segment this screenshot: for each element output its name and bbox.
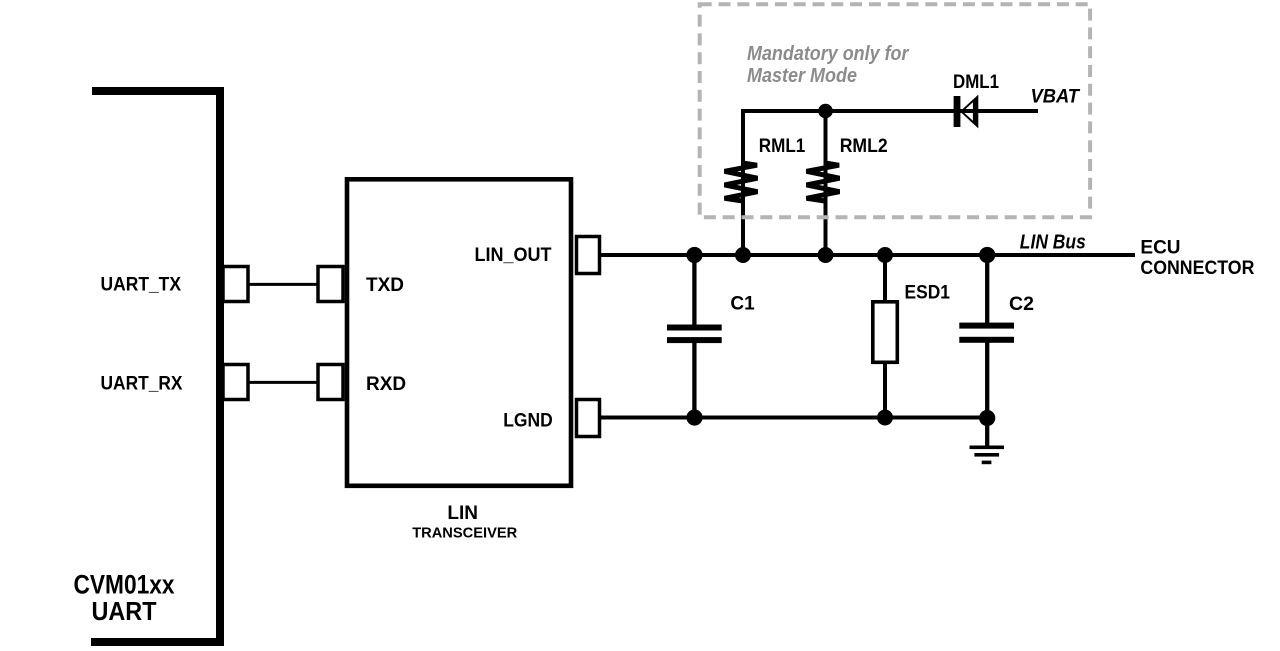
pin box TXD xyxy=(318,267,343,302)
node C1 top xyxy=(686,247,702,263)
CVM01xx UART bracket xyxy=(91,87,224,646)
svg-text:ECU: ECU xyxy=(1140,238,1180,259)
svg-text:CONNECTOR: CONNECTOR xyxy=(1140,258,1254,279)
svg-text:RML2: RML2 xyxy=(840,136,888,157)
diode DML1 triangle xyxy=(960,95,978,129)
svg-text:LIN: LIN xyxy=(447,503,478,524)
ESD1 wires xyxy=(883,255,887,302)
node RML1 bus xyxy=(735,247,751,263)
pin box LIN_OUT xyxy=(577,237,600,274)
svg-text:RXD: RXD xyxy=(366,374,406,395)
svg-text:TRANSCEIVER: TRANSCEIVER xyxy=(412,525,517,542)
pin box UART_TX xyxy=(223,267,248,302)
wire pull-up top rail xyxy=(743,111,954,255)
svg-text:DML1: DML1 xyxy=(953,72,999,93)
svg-text:LIN Bus: LIN Bus xyxy=(1020,231,1086,253)
wire UART_RX to RXD xyxy=(248,381,318,384)
svg-text:Mandatory only for: Mandatory only for xyxy=(747,43,910,65)
svg-text:VBAT: VBAT xyxy=(1031,86,1081,108)
node pull-up junction xyxy=(818,104,833,119)
ESD1 body xyxy=(873,302,898,363)
pin box LGND xyxy=(577,400,600,437)
svg-text:C1: C1 xyxy=(730,294,755,315)
svg-text:UART_TX: UART_TX xyxy=(101,275,182,296)
capacitor C1 wire bottom xyxy=(692,343,696,418)
wire LIN bus main xyxy=(599,253,1135,257)
svg-text:CVM01xx: CVM01xx xyxy=(74,570,175,600)
svg-text:LGND: LGND xyxy=(503,410,553,432)
diode DML1 cathode bar xyxy=(954,96,961,127)
capacitor C2 wire bottom xyxy=(985,342,989,418)
node C2 top xyxy=(979,247,995,263)
svg-text:ESD1: ESD1 xyxy=(905,283,951,304)
resistor RML1 xyxy=(725,163,758,201)
pin box UART_RX xyxy=(223,365,248,400)
node C2 bottom xyxy=(979,410,995,426)
LIN transceiver box xyxy=(347,179,571,486)
svg-text:LIN_OUT: LIN_OUT xyxy=(475,245,552,266)
node C1 bottom xyxy=(686,409,702,425)
dashed box Mandatory only for Master Mode xyxy=(700,4,1090,217)
node ESD1 bottom xyxy=(877,410,893,426)
pin box RXD xyxy=(318,365,343,400)
wire diode to VBAT xyxy=(954,109,1038,113)
node ESD1 top xyxy=(877,247,893,263)
wire UART_TX to TXD xyxy=(248,283,318,286)
svg-text:TXD: TXD xyxy=(366,275,404,296)
wire RML2 branch xyxy=(824,111,828,255)
ground symbol xyxy=(985,418,989,447)
node RML2 bus xyxy=(818,247,834,263)
wire LGND bottom xyxy=(599,416,987,420)
capacitor C2 wire top xyxy=(985,255,989,323)
svg-text:UART: UART xyxy=(92,596,157,626)
svg-text:C2: C2 xyxy=(1009,293,1034,315)
svg-text:RML1: RML1 xyxy=(759,136,806,157)
svg-text:Master Mode: Master Mode xyxy=(747,65,857,87)
capacitor C1 plates xyxy=(667,325,722,331)
capacitor C1 wire top xyxy=(692,255,696,325)
capacitor C2 plates xyxy=(959,323,1014,329)
svg-text:UART_RX: UART_RX xyxy=(101,373,183,394)
resistor RML2 xyxy=(807,163,840,201)
